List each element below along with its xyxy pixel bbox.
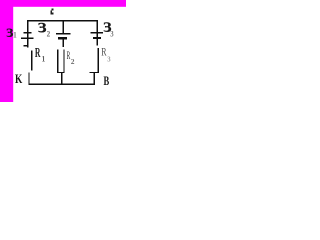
wire: right branch middle segment <box>98 48 99 72</box>
background <box>0 0 126 102</box>
svg-text:R: R <box>35 46 41 61</box>
battery E3 thick plate <box>93 37 101 39</box>
svg-text:2: 2 <box>47 29 51 38</box>
magenta top band <box>0 0 126 7</box>
battery E1 short plate <box>24 32 32 33</box>
svg-text:B: B <box>104 74 110 88</box>
battery E2 long plate <box>56 33 71 35</box>
svg-text:ε: ε <box>38 14 47 38</box>
magenta left band <box>0 0 13 102</box>
wire: right branch upper <box>97 21 98 32</box>
resistor R2 box left side <box>57 50 58 74</box>
wire: left between plates <box>27 34 28 38</box>
svg-text:2: 2 <box>71 57 75 66</box>
wire: right branch lower segment <box>94 73 95 85</box>
wire: right below battery <box>96 39 97 45</box>
wire: bottom horizontal <box>28 84 95 86</box>
battery E2 thick plate <box>58 37 67 39</box>
battery E3 long plate <box>91 32 103 34</box>
svg-text:3: 3 <box>107 55 111 63</box>
resistor R2 box right side <box>63 50 64 74</box>
svg-text:1: 1 <box>13 30 17 39</box>
left branch tick plate <box>24 45 29 46</box>
battery E1 long plate <box>21 37 34 39</box>
node A glyph (top center) <box>51 9 54 15</box>
wire: middle below battery <box>63 39 65 47</box>
wire: middle stem to bottom <box>61 73 62 83</box>
wire: top horizontal <box>27 20 98 22</box>
svg-text:K: K <box>15 73 23 87</box>
svg-text:3: 3 <box>110 29 114 39</box>
resistor R2 box bottom <box>57 72 65 73</box>
svg-text:R: R <box>101 46 106 59</box>
wire: right jog horizontal <box>90 72 99 73</box>
svg-text:R: R <box>67 49 71 62</box>
svg-text:1: 1 <box>42 54 46 63</box>
wire: left below battery <box>27 39 28 48</box>
wire: left branch lower segment <box>28 73 29 85</box>
wire: left branch upper <box>27 21 28 32</box>
wire: left branch middle segment <box>31 51 32 71</box>
wire: right between plates <box>97 33 98 36</box>
wire: middle branch upper <box>63 21 65 33</box>
